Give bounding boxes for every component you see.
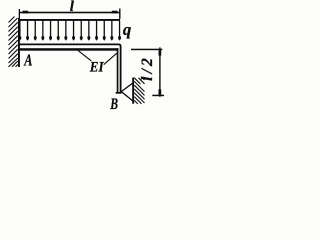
beam top line with corner into column right line	[19, 44, 120, 92]
support B wall line	[132, 78, 134, 104]
svg-text:q: q	[123, 20, 131, 39]
svg-text:EI: EI	[89, 59, 104, 75]
dimension line l/2 vertical	[159, 47, 160, 96]
svg-text:B: B	[109, 96, 118, 111]
dimension extension tick left	[19, 9, 20, 19]
wall hatching at A	[9, 17, 18, 67]
svg-text:A: A	[23, 51, 32, 70]
column left line	[117, 48, 119, 93]
dimension line l	[20, 12, 120, 14]
dimension l/2 bottom extension line	[152, 95, 164, 97]
support B wall hatching	[134, 78, 144, 104]
dimension l/2 top extension line	[131, 49, 162, 51]
beam bottom line	[19, 48, 118, 51]
distributed load top line	[19, 19, 120, 21]
distributed load arrows	[18, 21, 121, 41]
dimension l/2 arrow up	[159, 50, 162, 55]
dimension extension tick right	[119, 9, 120, 20]
fixed wall face line at A	[18, 18, 20, 67]
svg-text:l/2: l/2	[139, 55, 156, 81]
support B triangle	[121, 83, 132, 101]
column bottom cap at B pin	[116, 92, 122, 94]
EI leader line left	[78, 50, 91, 61]
dimension arrow right	[112, 11, 118, 14]
dimension arrow left	[23, 11, 29, 14]
EI leader line right	[104, 53, 117, 64]
dimension l/2 arrow down	[159, 89, 162, 94]
